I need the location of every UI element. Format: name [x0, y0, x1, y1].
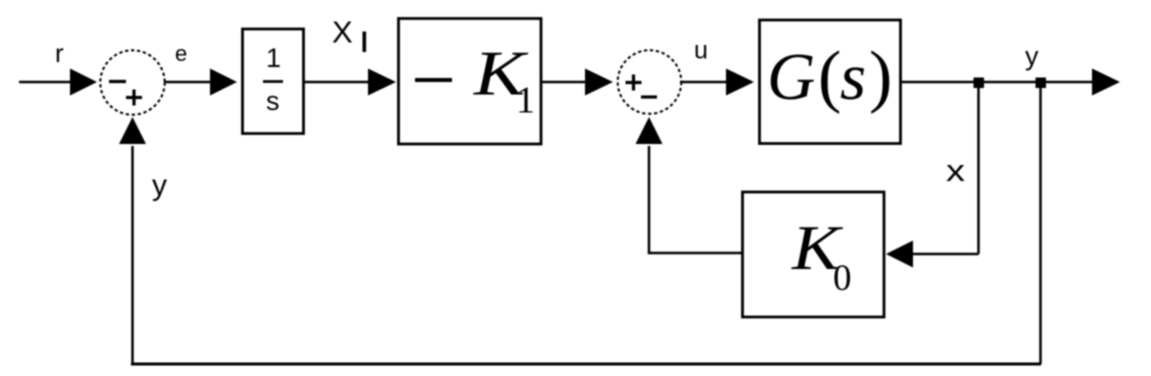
wire: K0 output left then up to S2 [649, 146, 742, 253]
svg-text:(: ( [818, 38, 841, 115]
svg-text:x: x [946, 153, 966, 188]
svg-text:1: 1 [516, 80, 535, 122]
svg-text:y: y [1025, 41, 1039, 71]
arrowhead: into -K1 block [368, 69, 396, 96]
arrowhead: into S1 left [70, 69, 97, 96]
wire: left feedback rise to S1 [131, 146, 134, 365]
wire: S1 to integrator block [164, 81, 214, 84]
svg-text:r: r [55, 38, 64, 68]
block -K1 [399, 19, 542, 145]
arrowhead: into K0 right side [886, 241, 913, 268]
wire: into K0 from right [910, 253, 979, 256]
svg-text:y: y [152, 169, 167, 202]
arrowhead: output y [1092, 69, 1120, 96]
block G(s) (plant) [760, 20, 901, 144]
summing junction S2 (plus left, minus bottom) [618, 50, 682, 114]
arrowhead: up into S1 bottom [119, 117, 146, 144]
svg-text:s: s [266, 86, 280, 116]
wire: -K1 to summing junction S2 [541, 81, 589, 84]
wire: bottom feedback run [131, 363, 1041, 366]
svg-text:): ) [869, 38, 892, 115]
block 1/s (integrator) [243, 29, 304, 134]
summing junction S1 (minus left, plus bottom) [100, 50, 164, 114]
wire: S2 to G(s) [680, 81, 730, 84]
wire: input r into summing junction S1 [19, 81, 74, 84]
node dot: y tap [1036, 78, 1047, 89]
svg-text:1: 1 [266, 43, 281, 73]
svg-text:s: s [840, 40, 866, 114]
arrowhead: into S2 left [585, 69, 613, 96]
svg-text:G: G [767, 40, 815, 114]
svg-text:u: u [694, 37, 708, 65]
svg-text:X: X [332, 15, 353, 50]
svg-text:e: e [175, 41, 187, 66]
label X_I [332, 15, 366, 53]
block K0 (feedback gain) [743, 192, 885, 317]
svg-text:0: 0 [833, 258, 852, 299]
wire: x tap drop [977, 84, 980, 254]
arrowhead: up into S2 bottom [636, 117, 663, 144]
arrowhead: into G(s) [726, 69, 754, 96]
node dot: x tap [974, 78, 985, 89]
arrowhead: into 1/s block [210, 69, 237, 96]
wire: G(s) output to right edge [900, 81, 1096, 84]
wire: 1/s to -K1 block [304, 81, 372, 84]
wire: y tap drop [1039, 84, 1042, 364]
